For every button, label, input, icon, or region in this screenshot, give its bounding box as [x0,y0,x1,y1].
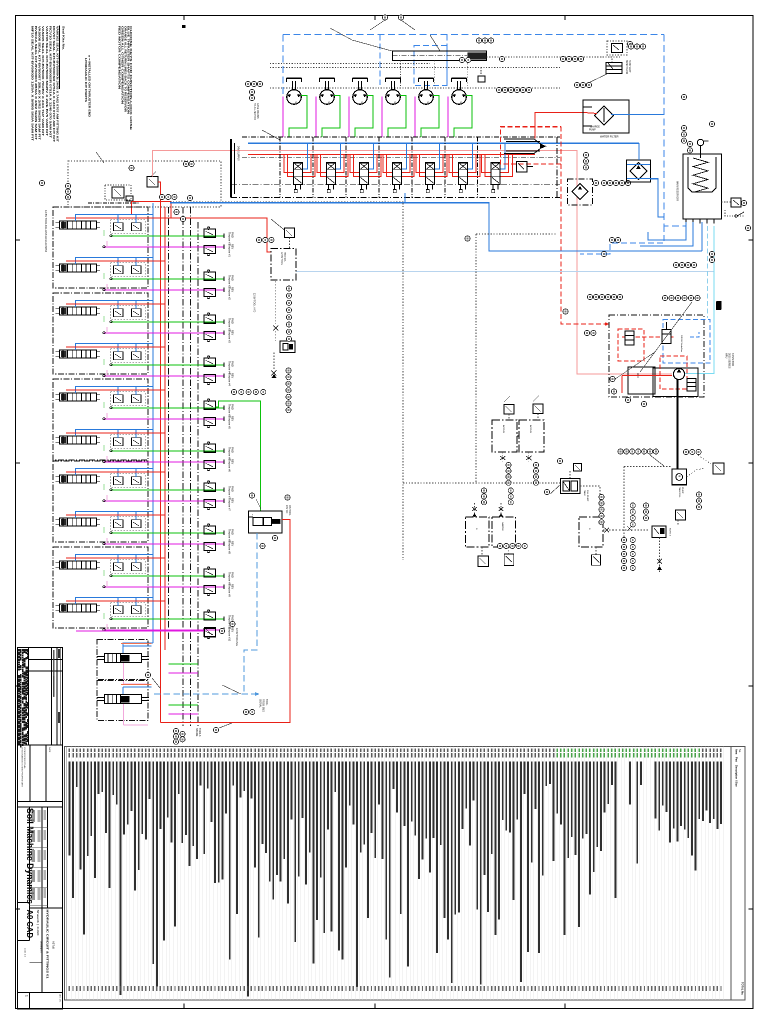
module M5 thruster valve FWD [204,401,216,409]
blue return into tank port [701,222,703,251]
svg-text:Thruster #4: Thruster #4 [228,373,231,386]
svg-text:scale 1:1: scale 1:1 [24,948,26,958]
pilot valve small [126,196,133,201]
blue dashed enclosure left drop [282,35,284,96]
ref circles row above motor [618,449,623,454]
CB2 drain stem [528,452,530,462]
module M9 pilot dashed surround [111,560,146,574]
dotted instrument chain from tools manifold [275,281,277,324]
collector taper [504,139,544,154]
thruster motor T6 mount tee [452,77,467,79]
module M2 green work line [111,278,224,280]
GB1 outlet valve [481,547,483,556]
HPU solenoid valve 2 [662,330,671,344]
module M3 red line to bus [66,303,165,305]
module M1 pilot valve b [132,223,142,231]
prop module drain lavender [123,663,125,684]
refs column right of instrument chain [286,286,291,291]
svg-text:FWD: FWD [231,275,234,281]
svg-text:FWD: FWD [231,361,234,367]
blue dashed jog near tank bottom [580,226,664,254]
svg-text:HPU: HPU [725,353,728,358]
svg-text:M: M [294,102,297,104]
sump blow dotted link [592,57,612,62]
valve far right VR [713,463,724,474]
LP pump relief valve [676,510,686,520]
svg-text:FWD: FWD [231,232,234,238]
instrument block [280,341,295,353]
module M5 red line to bus [66,389,165,391]
module M3 blue supply loop [76,300,154,307]
valve module M5 main block [60,393,97,401]
module M1 pilot dashed surround [111,220,146,234]
module M3 magenta work line [104,332,224,334]
parts list quantity row [69,986,70,991]
prop module green stub [169,704,199,706]
thruster motor T6 green case line [454,96,472,138]
svg-text:TOOL: TOOL [265,699,268,706]
dotted boundary bottom [403,482,553,484]
svg-text:24V BV HudsNav: 24V BV HudsNav [680,335,682,353]
GB1 inlet cross [474,503,476,517]
svg-text:Part: Part [735,757,739,762]
thruster motor T5 body [419,90,434,105]
svg-text:REV: REV [231,584,234,589]
module M6 thruster valve REV [204,460,216,468]
thruster motor T4 body [386,90,401,105]
border tick marks [183,16,185,21]
svg-text:TANK: TANK [583,490,586,496]
module M1 thruster valve REV [204,245,216,253]
red dashed box around collector [500,127,561,164]
module M7 magenta work line [104,500,224,502]
sump blow valve [612,43,623,52]
svg-text:VA90102 SEAL KIT-BV5000KN JA: VA90102 SEAL KIT-BV5000KN JA05 X 7A02 07… [56,26,60,142]
svg-text:TANK FILL: TANK FILL [678,487,681,498]
gauge box GB3 [579,517,603,547]
svg-text:M: M [393,102,396,104]
band valve cluster at x=459 [449,154,476,172]
signal dashed from SMD tool valve [244,533,257,694]
svg-text:REV: REV [231,627,234,632]
red rail drop at module 1 [131,201,133,214]
reservoir breather circle [697,139,703,145]
prop module chain box [97,681,148,721]
parts list description strips [69,762,71,856]
svg-text:CONFIDENTIAL: CONFIDENTIAL [23,747,26,769]
svg-text:FWD: FWD [231,318,234,324]
svg-text:VA5006 SEAL KIT-BV50007 2B: VA5006 SEAL KIT-BV50007 2BL60 X 2/R2 5H2… [38,26,42,140]
GB3 outlet valve [595,547,597,555]
prop module magenta stub [169,713,199,715]
svg-text:Thruster #6: Thruster #6 [228,459,231,472]
HPU ref circles [587,294,592,299]
svg-text:Seal Kits No.: Seal Kits No. [62,26,66,50]
module M8 green work line [111,532,224,534]
dotted signal lines from junction box [487,56,621,58]
module M9 thruster valve FWD [204,569,216,577]
LP pump drain X marks [659,538,661,573]
thruster motor T1 body [287,90,302,105]
svg-text:Thruster #7: Thruster #7 [228,498,231,511]
valve module M8 main block [60,518,97,526]
red dashed line to HPU [561,127,608,324]
black dotted boundary 2 [475,234,477,483]
svg-text:FWD: FWD [231,447,234,453]
cyan dashed tank to HPU [707,226,709,318]
module M10 thruster valve REV [204,628,216,636]
proportional valve module P1 [105,654,142,663]
band valve cluster at x=294 [284,154,311,172]
module M7 green work line [111,489,224,491]
module M8 thruster valve FWD [204,526,216,534]
prop module green stub [169,663,199,665]
pale blue return line [296,271,714,273]
module M6 magenta work line [104,461,224,463]
sump blow refs [628,44,633,49]
module M10 red line to bus [66,600,165,602]
svg-text:12 BV TOOL HYD: 12 BV TOOL HYD [253,293,256,312]
red feed inside pump block [622,375,672,377]
thruster motor T1 magenta drain [282,97,284,138]
svg-text:REV: REV [231,287,234,292]
misc ref circles upper left bank [174,209,179,214]
valve module M3 main block [60,307,97,315]
svg-text:ACCUM: ACCUM [502,425,505,433]
revision small text strips [53,650,55,697]
junction box bar [393,51,487,61]
pressure reducing valve PRV1 [147,177,158,188]
svg-text:A0 CAD: A0 CAD [25,910,35,939]
thruster motor T2 magenta drain [315,97,317,138]
solenoid valve SV-P [112,187,124,198]
red pilot bus B [164,207,166,650]
thruster motor T2 mount tee [320,77,335,79]
module M4 thruster valve FWD [204,358,216,366]
proportional valve module P2 [105,695,142,704]
black dotted boundary along blue line [170,201,403,560]
module M3 thruster valve FWD [204,315,216,323]
prop module feed lines [123,645,152,647]
module M10 green work line [111,618,224,620]
relief valve above SB [574,464,582,472]
main pump circle [673,368,684,379]
svg-text:SIGNAL: SIGNAL [259,699,262,708]
valve module M6 main block [60,436,97,444]
red loop from SMD tool valve [161,520,291,723]
svg-text:HYD SPL: HYD SPL [283,252,285,263]
parts list column rules [71,747,73,1001]
svg-text:HYDRAULIC KIT PARTS: HYDRAULIC KIT PARTS [84,58,88,102]
svg-text:REV: REV [231,498,234,503]
module M2 thruster valve REV [204,288,216,296]
parts list header column right [730,747,732,1001]
module M3 pilot valve b [132,309,142,317]
module M5 pilot valve a [114,395,124,403]
module M6 red line to bus [66,432,165,434]
module M10 pilot dashed surround [111,603,146,617]
HPU red dashed cross line [622,336,674,338]
module M5 pilot dashed surround [111,392,146,406]
svg-text:12 BV TOOLING HSS HCU ACS054: 12 BV TOOLING HSS HCU ACS054 [44,210,48,253]
refs on green spare line [497,543,502,548]
band rails: chain top [242,136,560,138]
module 1 red line to tools manifold [66,218,271,252]
refs near tools manifold [256,237,261,242]
sensor symbol above band [480,68,482,77]
svg-text:VA5705 SEAL KIT-BV5000 NGB: VA5705 SEAL KIT-BV5000 NGBV X 22/E BV5 V… [45,26,49,136]
cyan standpipe line [685,226,715,374]
svg-text:Thruster #5: Thruster #5 [228,416,231,429]
svg-text:FWD: FWD [231,615,234,621]
svg-text:NOTE 3: NOTE 3 [669,528,671,537]
module M4 pilot valve a [114,352,124,360]
sump blow block [606,62,622,73]
HPU solenoid valve 1 [625,331,634,345]
green spare line to SMD tool valve [216,401,261,511]
prop module feed lines [123,686,152,688]
module M8 pilot valve a [114,520,124,528]
HPU pump aux valve [687,379,696,392]
blue HX to tank [650,179,664,217]
blue solid tank drain lines [640,222,693,246]
module M7 red line to bus [66,471,165,473]
pilot-to-module dash-dot link [88,202,140,204]
pump suction thick line [676,380,678,470]
SMD tool valve block [249,511,283,533]
svg-text:3000 SERIES: 3000 SERIES [728,353,731,369]
svg-text:MF10 SEAL KIT-BV50020 1: MF10 SEAL KIT-BV50020 12/5A X 5/805 5/5/… [30,26,34,142]
module M6 pilot valve a [114,438,124,446]
size cells rules [30,907,63,909]
svg-text:sht 1 of 1: sht 1 of 1 [59,994,62,1003]
GB2 outlet valve [508,547,510,554]
svg-text:A5Tu5: A5Tu5 [52,941,56,949]
module M10 pilot valve b [132,606,142,614]
module M1 magenta work line [104,246,224,248]
pilot supply line (salmon) [153,151,249,177]
module M4 pilot dashed surround [111,349,146,363]
blue pilot bus [152,203,154,643]
GB2 inlet cross [500,503,502,517]
module M7 pilot valve b [132,477,142,485]
blue out of water filter [611,113,664,115]
ref circles top [476,38,481,43]
dotted links bottom middle [553,482,560,484]
thruster motor T5 magenta drain [414,97,416,138]
leader lines junction box [330,28,392,51]
module M8 pilot valve b [132,520,142,528]
title block outer [18,648,63,1010]
valve module M4 main block [60,350,97,358]
module M10 blue supply loop [76,597,154,604]
X crossing on GB3 link [627,526,632,531]
band rails: chain bottom [231,197,560,199]
module M5 magenta work line [104,418,224,420]
red/blue pilot rails to top of bank [132,200,172,202]
tools manifold relief valve [285,228,295,238]
svg-text:TO ALL MOTOR: TO ALL MOTOR [253,103,256,120]
ref circle columns bottom middle [599,494,604,499]
module M6 blue supply loop [76,429,154,436]
band valve cluster at x=426 [416,154,443,172]
gauge box GB2 [492,517,516,547]
module M9 thruster valve REV [204,585,216,593]
module M8 pilot dashed surround [111,517,146,531]
svg-text:Item: Item [735,749,739,755]
band rails: blue supply [248,142,639,144]
tank right dotted link [722,201,732,203]
svg-text:FWD: FWD [231,529,234,535]
end-of-band relief valve [517,162,528,173]
svg-text:BV60AA SEAL KIT-BV50003 2B: BV60AA SEAL KIT-BV50003 2B5/A X 2/R2 5H2… [34,26,38,140]
module M6 thruster valve FWD [204,444,216,452]
svg-text:FILL PUMP: FILL PUMP [586,490,588,502]
svg-text:FROM SMD: FROM SMD [262,699,265,712]
module M9 pilot valve a [114,563,124,571]
check symbol right of tank [737,212,744,216]
thruster motor T4 mount tee [386,77,401,79]
thruster motor T3 mount tee [353,77,368,79]
module M7 pilot dashed surround [111,474,146,488]
title block revision row rules [29,659,63,661]
title block middle empty cells [18,744,63,746]
blue dashed right drop to tank [664,35,686,226]
module M2 pilot valve a [114,266,124,274]
module M2 thruster valve FWD [204,272,216,280]
svg-text:Thruster #1: Thruster #1 [228,244,231,257]
thruster motor T1 green case line [289,96,307,138]
svg-text:WATER FILTER: WATER FILTER [600,135,619,139]
svg-text:M: M [678,475,682,477]
svg-text:No.: No. [738,749,741,753]
module M7 blue supply loop [76,468,154,475]
reservoir bottom ports [685,219,687,224]
band valve cluster at x=491.5 [482,154,509,172]
thruster motor T3 green case line [355,96,373,138]
refs mid column right of bank [583,152,588,157]
svg-text:HYDRAULIC CIRCUIT & FITTINGS 0: HYDRAULIC CIRCUIT & FITTINGS 01 [46,910,50,979]
svg-text:Sheet1 | CAD: Sheet1 | CAD [36,910,40,936]
dotted link motor row [687,468,706,477]
red line collector to water filter [535,113,584,139]
ref circles pilot area [65,183,70,188]
ref on dotted boundary [465,236,470,241]
svg-text:PUMP: PUMP [589,130,596,132]
HPU blue dashed sub-box [663,320,710,364]
LP pump block [652,526,666,538]
refs above GB1/GB2 [481,488,486,493]
svg-text:RCV10 SEAL KIT-BV5000SR 0: RCV10 SEAL KIT-BV5000SR 0751A X 1240 070… [48,26,52,138]
band rails: chain low [231,184,560,186]
salmon line to pump (right leg) [546,151,672,375]
module M1 thruster valve FWD [204,229,216,237]
water filter box [583,100,629,133]
cells beside company name [29,807,31,941]
band rails: red supply [248,153,535,155]
valve module M7 main block [60,475,97,483]
magenta line module10 to relief valve [76,630,204,632]
svg-text:Description / Size: Description / Size [735,765,739,787]
relief valve above CB2 [533,404,543,414]
chain columns mid (valve column frame) [197,222,199,726]
svg-text:Thruster #3: Thruster #3 [228,330,231,343]
heat exchanger box [627,160,651,182]
module M8 blue supply loop [76,511,154,518]
parts list item numbers row [69,748,71,751]
svg-text:M: M [327,102,330,104]
thruster motor T2 body [320,90,335,105]
module M2 pilot valve b [132,266,142,274]
module M1 pilot valve a [114,223,124,231]
module M2 magenta work line [104,289,224,291]
svg-text:FWD: FWD [231,572,234,578]
module M7 thruster valve REV [204,499,216,507]
svg-text:REV: REV [231,459,234,464]
reservoir internal baffle [688,157,716,192]
HPU red dashed sub-box [618,329,644,361]
module M10 thruster valve FWD [204,612,216,620]
svg-text:3 PLN POD: 3 PLN POD [731,353,734,366]
parts list outer frame [65,747,746,1001]
svg-text:24V SUPPLY: 24V SUPPLY [237,146,240,161]
module M2 pilot dashed surround [111,263,146,277]
thruster motor T3 magenta drain [348,97,350,138]
module M5 pilot valve b [132,395,142,403]
svg-text:ON TOOL: ON TOOL [288,505,291,516]
refs below CB1/CB2 [506,462,511,467]
module M7 thruster valve FWD [204,483,216,491]
module M6 pilot dashed surround [111,435,146,449]
svg-text:REV: REV [231,416,234,421]
svg-text:M: M [426,102,429,104]
svg-text:DATE: DATE [48,747,51,753]
valve module M9 main block [60,561,97,569]
svg-text:SUMP BLOW: SUMP BLOW [625,60,627,75]
module M1 blue supply loop [76,214,154,221]
main drive motor box [672,469,687,485]
svg-text:M: M [360,102,363,104]
HPU leader diagonal [640,302,692,372]
blue dashed enclosure top [283,34,664,36]
blue HX internal lines [627,163,650,165]
svg-text:M: M [459,102,462,104]
HPU pump enclosure black box [653,368,698,397]
prop module magenta stub [169,672,199,674]
thruster motor T4 magenta drain [381,97,383,138]
svg-text:TOTAL No.: TOTAL No. [741,982,745,996]
svg-text:Thruster #8: Thruster #8 [228,541,231,554]
svg-text:TANK VENT: TANK VENT [628,60,631,73]
svg-text:RCV07 SEAL KIT-BV5000SR 0: RCV07 SEAL KIT-BV5000SR 0751A X 1240 070… [52,26,56,142]
sheet cells bottom [18,992,63,994]
module M4 pilot valve b [132,352,142,360]
module M9 pilot valve b [132,563,142,571]
svg-text:VA5205 SEAL KIT-BV5000 70U: VA5205 SEAL KIT-BV5000 70UBV X 2A0 7H7 V… [41,26,45,137]
thruster motor T4 green case line [388,96,406,138]
svg-text:REV: REV [231,541,234,546]
module M3 thruster valve REV [204,331,216,339]
arrow from notes to pilot [96,152,104,163]
charge pump check block [568,179,593,205]
relief valve above CB1 [504,405,514,415]
refs right of band [601,180,606,185]
thruster motor T6 body [452,90,467,105]
compensator box CB1 [492,420,517,452]
svg-text:CHARGE: CHARGE [590,126,600,129]
solenoid block SB [561,479,581,494]
prop module chain box [97,640,148,680]
